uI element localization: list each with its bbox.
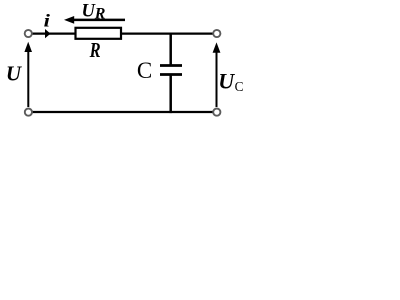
voltage arrow UC (capacitor voltage, points up between right terminals) bbox=[213, 42, 221, 107]
svg-text:U: U bbox=[218, 68, 235, 93]
wire top-right segment (resistor to top-right terminal, through node at capacitor tap) bbox=[121, 32, 213, 34]
wire capacitor branch lower (capacitor bottom plate down to bottom wire) bbox=[169, 75, 172, 114]
wire bottom segment (bottom-left terminal to bottom-right terminal) bbox=[33, 111, 213, 113]
svg-text:C: C bbox=[235, 79, 244, 94]
wire top-left segment (input terminal to resistor) bbox=[32, 32, 75, 34]
svg-text:R: R bbox=[89, 38, 101, 62]
current arrow i (arrowhead on top wire) bbox=[45, 29, 51, 38]
wire capacitor branch upper (top node down to capacitor top plate) bbox=[169, 33, 172, 66]
voltage arrow UR (points left above resistor) bbox=[64, 16, 125, 24]
svg-text:U: U bbox=[6, 62, 23, 86]
svg-text:R: R bbox=[94, 6, 106, 23]
svg-text:i: i bbox=[44, 11, 50, 31]
capacitor C (two parallel plates) bbox=[160, 66, 182, 75]
voltage arrow U (input voltage, points up between left terminals) bbox=[24, 42, 32, 107]
terminal top-left (input port, open circle) bbox=[25, 30, 32, 37]
terminal bottom-right (output port, open circle) bbox=[213, 109, 220, 116]
svg-text:C: C bbox=[137, 58, 152, 83]
label UC (capacitor voltage, U with subscript C) bbox=[218, 68, 243, 94]
terminal bottom-left (input port, open circle) bbox=[25, 109, 32, 116]
label UR (resistor voltage, U with subscript R) bbox=[82, 2, 106, 23]
terminal top-right (output port, open circle) bbox=[213, 30, 220, 37]
resistor R (rectangle body) bbox=[76, 28, 122, 39]
